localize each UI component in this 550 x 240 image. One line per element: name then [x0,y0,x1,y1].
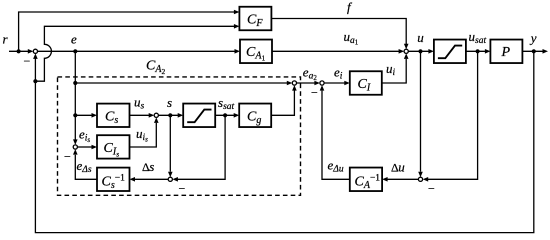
node e [73,49,77,53]
wire P to output [522,49,548,54]
svg-text:−: − [428,182,435,196]
wire ssat down to S4 [172,115,225,181]
node u [418,49,422,53]
svg-text:−: − [64,150,71,164]
node e to ea2 branch [73,81,77,85]
wire S1 to CA1 [38,49,241,54]
wire CIs output uis to S3 [130,117,159,147]
block CI [350,71,382,95]
node e to Cs branch [73,113,77,117]
wire r branch to CF upper input [19,10,240,52]
wire u down to DU junction [418,51,423,177]
svg-text:e: e [71,31,77,46]
block saturation SAT2 [434,40,466,64]
summing junction EA1 [292,81,296,85]
wire SAT2 to P [466,49,491,54]
block CIs [97,135,130,158]
wire s down to S4 [168,115,173,177]
block CF [239,7,271,31]
block Cs [97,104,130,127]
wire Cs output us to S3 [130,113,155,118]
wire CF output f to S2 [271,19,408,50]
wire CA1 output ua1 to S2 [272,49,404,54]
summing junction DU [418,177,422,181]
wire DU output du to CA inverse [382,177,418,182]
wire S4 output ds to Cs inverse [130,177,169,182]
svg-text:−: − [24,54,31,68]
wire SAT1 to Cg [215,113,239,118]
node y [532,49,536,53]
wire feedback y bottom loop [33,51,534,232]
svg-text:y: y [529,31,537,46]
svg-text:s: s [167,95,172,110]
dashed subsystem box CA2 [58,77,301,195]
node s [168,113,172,117]
block CA inverse [350,168,382,192]
summing junction S1 [33,49,37,53]
summing junction S3 [154,113,158,117]
wire e vertical [73,51,78,145]
wire CI output ui to S2 [382,53,409,83]
summing junction S4 [168,177,172,181]
wire usat down to DU junction [423,51,478,181]
wire CA inverse output edu to EA2 [320,85,350,179]
svg-text:u: u [417,30,424,45]
wire Cs inverse output eds to EIS [73,149,97,179]
wire feedback branch hop to CF lower input [35,24,239,81]
node usat [476,49,480,53]
block Cg [239,104,271,128]
summing junction EA2 [320,81,324,85]
node feedback branch [33,79,37,83]
block P [490,40,522,64]
wire EIS to CIs [77,145,97,150]
wire S3 to SAT1 [158,113,183,118]
wire S2 to saturation [408,49,434,54]
svg-text:s: s [149,159,154,174]
wire EA1 to EA2 [297,81,320,86]
wire EA2 to CI [324,81,350,86]
svg-text:−: − [179,182,186,196]
wire e to EA1 junction [75,81,292,86]
block CA1 [240,40,272,64]
svg-text:u: u [398,160,405,175]
summing junction S2 [404,49,408,53]
summing junction EIS [73,145,77,149]
block saturation SAT1 [183,104,215,128]
svg-text:−: − [311,86,318,100]
wire e to Cs [75,113,97,118]
svg-text:P: P [501,45,511,60]
node ssat [223,113,227,117]
block Cs inverse [97,168,130,191]
node r branch [17,49,21,53]
wire Cg output up to EA1 [271,85,297,115]
wire r input [9,49,33,54]
